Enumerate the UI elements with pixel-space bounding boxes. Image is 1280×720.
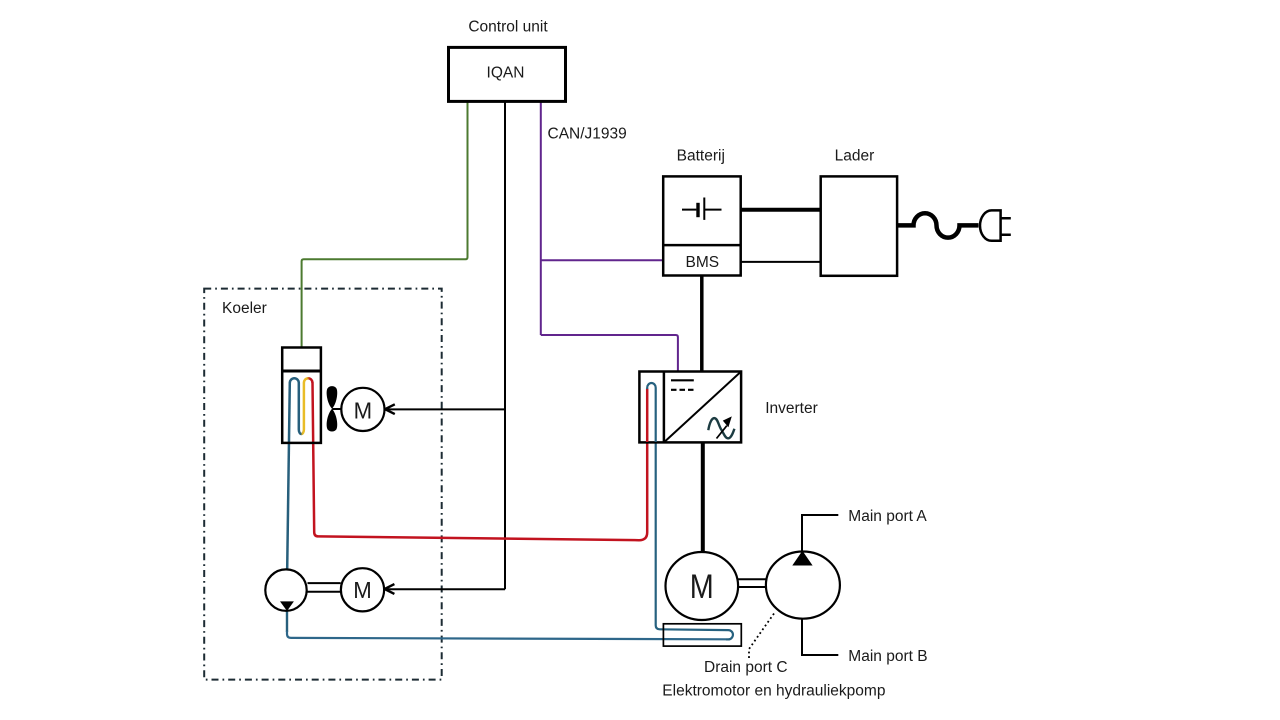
svg-text:Main port A: Main port A xyxy=(848,508,927,525)
svg-text:Elektromotor en hydrauliekpomp: Elektromotor en hydrauliekpomp xyxy=(662,683,885,700)
svg-text:Batterij: Batterij xyxy=(677,148,725,165)
svg-text:Koeler: Koeler xyxy=(222,300,267,317)
svg-text:Lader: Lader xyxy=(835,148,875,165)
svg-text:IQAN: IQAN xyxy=(487,65,525,82)
svg-text:M: M xyxy=(353,577,372,603)
svg-text:Main port B: Main port B xyxy=(848,648,927,665)
svg-text:Control unit: Control unit xyxy=(468,19,548,36)
svg-text:BMS: BMS xyxy=(686,254,720,271)
svg-text:M: M xyxy=(354,397,373,423)
svg-text:CAN/J1939: CAN/J1939 xyxy=(548,126,627,143)
svg-text:M: M xyxy=(690,568,714,606)
svg-text:Drain port C: Drain port C xyxy=(704,659,788,676)
svg-text:Inverter: Inverter xyxy=(765,400,818,417)
